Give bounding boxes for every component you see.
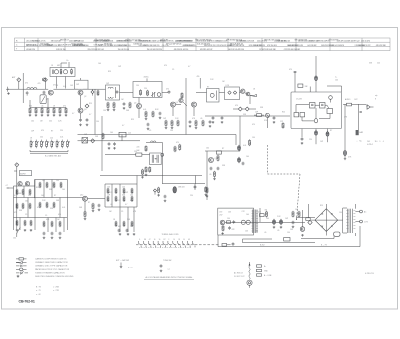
resistor R46 (29, 189, 31, 195)
svg-text:103: 103 (122, 187, 125, 189)
svg-text:10P C22 10P 1M .05: 10P C22 10P 1M .05 (166, 43, 181, 45)
top mid labels (98, 63, 122, 73)
ladder labels (29, 106, 66, 108)
decoupling cap C24 (315, 75, 318, 82)
inner resistor (221, 225, 224, 235)
svg-text:100 2.2K .05 47K 150: 100 2.2K .05 47K 150 (228, 49, 244, 51)
svg-text:100: 100 (130, 195, 133, 197)
IC U1 inner block C (327, 109, 333, 114)
wires power left (296, 204, 315, 227)
resistor R68 (123, 188, 125, 194)
svg-text:103: 103 (70, 85, 73, 87)
audio out wire (343, 104, 366, 150)
svg-text:DENOTES CHASSIS COMMON GROUND: DENOTES CHASSIS COMMON GROUND (35, 275, 74, 278)
svg-text:455: 455 (197, 76, 200, 78)
resistor R83 (217, 155, 219, 162)
mini table right of plug (257, 265, 273, 277)
resistor R71 (115, 196, 117, 202)
resistor R16 (107, 102, 110, 111)
transistor Q13 (209, 158, 218, 163)
svg-text:AUDIO: AUDIO (345, 98, 351, 101)
resistor R72 (123, 196, 125, 202)
rectifier circles D5 (241, 220, 250, 224)
svg-text:R7: R7 (164, 239, 166, 241)
wire if stage (139, 78, 194, 135)
cap at x295 (289, 69, 296, 73)
left margin stub (6, 185, 14, 188)
resistor R45 (22, 189, 24, 195)
svg-text:100: 100 (62, 189, 65, 191)
labels if stage (143, 109, 202, 132)
svg-text:470: 470 (289, 69, 292, 71)
svg-text:9: 9 (379, 141, 380, 143)
resistor on line (97, 90, 99, 96)
resistor R84 (213, 171, 216, 180)
trimmer VR5 (46, 140, 49, 149)
pot bank labels (30, 137, 63, 140)
svg-text:0.01 1K 682: 0.01 1K 682 (307, 45, 316, 47)
labels driver2 (206, 148, 226, 177)
svg-text:56K .05 R15 103: 56K .05 R15 103 (295, 39, 307, 41)
svg-text:1K 2.2K 47K 470: 1K 2.2K 47K 470 (58, 45, 71, 47)
resistor R66 (107, 188, 109, 194)
detector diode D3 (245, 107, 249, 111)
diode on line (91, 89, 94, 95)
transformer wires (343, 204, 356, 236)
svg-text:C22 R15 100 103 682: C22 R15 100 103 682 (284, 49, 300, 51)
capacitor C12 (159, 112, 162, 119)
tone cap symbol (160, 264, 170, 272)
coupling box (134, 151, 142, 156)
zener D6 (308, 220, 312, 224)
svg-text:104: 104 (335, 80, 338, 82)
svg-text:8.2K 103 2.2K 4.7 224: 8.2K 103 2.2K 4.7 224 (110, 45, 126, 47)
svg-text:103 682 1K: 103 682 1K (133, 43, 142, 45)
svg-text:56K 100 R7 C22: 56K 100 R7 C22 (347, 41, 359, 43)
svg-text:150: 150 (339, 212, 342, 214)
resistor R61 (43, 221, 45, 227)
svg-text:220: 220 (40, 137, 43, 139)
power transistor Q12 (173, 187, 185, 194)
svg-text:682: 682 (57, 65, 60, 67)
switch S1-1 (138, 241, 141, 247)
svg-text:4.7: 4.7 (72, 113, 74, 115)
svg-text:4.7: 4.7 (188, 66, 190, 68)
svg-text:TONE SW: TONE SW (163, 260, 172, 262)
svg-text:470: 470 (176, 142, 179, 144)
capacitor C1 (26, 91, 29, 96)
resistor R80 (145, 166, 148, 176)
resistor R92 (292, 211, 294, 218)
input diamond J3 (15, 163, 19, 167)
resistor R75 (123, 221, 125, 227)
svg-text:150: 150 (252, 137, 255, 139)
labels t2 (103, 99, 130, 112)
svg-text:682 56K 100 220: 682 56K 100 220 (183, 45, 196, 47)
resistor R85 (206, 187, 209, 198)
svg-text:x : 4V: x : 4V (36, 294, 41, 296)
svg-text:L : 2SB: L : 2SB (53, 287, 60, 289)
label near q3 (72, 113, 91, 116)
svg-text:1M 1K 100: 1M 1K 100 (104, 43, 112, 45)
svg-text:10: 10 (183, 239, 185, 241)
capacitor C35 (98, 204, 101, 211)
svg-text:R15: R15 (89, 103, 92, 105)
resistor R60 (53, 202, 55, 208)
svg-text:x-x: x-x (168, 269, 170, 271)
svg-text:8: 8 (375, 99, 376, 101)
resistor R20 (145, 111, 148, 120)
switch tick labels (139, 239, 190, 241)
svg-text:150: 150 (136, 85, 139, 87)
svg-text:470 R15 .05 10P: 470 R15 .05 10P (200, 49, 213, 51)
svg-text:103 470 R15 100: 103 470 R15 100 (321, 45, 334, 47)
plug labels (234, 272, 244, 278)
svg-text:CX-093: CX-093 (296, 99, 302, 101)
svg-text:103: 103 (295, 209, 298, 211)
inner comps (227, 218, 236, 224)
parts table data (26, 39, 386, 51)
svg-text:C9: C9 (149, 130, 151, 132)
svg-text:R7 1K 0.01 4.7 1K: R7 1K 0.01 4.7 1K (32, 41, 46, 43)
svg-text:100: 100 (31, 121, 34, 123)
svg-text:103: 103 (130, 226, 133, 228)
trimmer VR6 (51, 140, 54, 149)
wire main bus left (9, 88, 106, 90)
svg-text:150: 150 (170, 130, 173, 132)
box component small (119, 132, 126, 137)
switch S1-5 (158, 241, 161, 247)
svg-text:220 224 56K: 220 224 56K (74, 45, 84, 47)
IC U1 outline (291, 92, 342, 129)
wire j3 down (14, 167, 17, 230)
svg-text:C9: C9 (178, 239, 180, 241)
resistor R82 (176, 142, 181, 151)
t3 top pin (144, 77, 150, 82)
jack caps (360, 112, 362, 113)
plug arrow (249, 264, 251, 266)
svg-text:47K 47K 33K: 47K 47K 33K (376, 45, 387, 47)
transistor Q9 (25, 182, 29, 186)
resistor R57 (60, 182, 62, 188)
svg-text:220: 220 (49, 121, 52, 123)
wire q2 collector (81, 89, 96, 134)
switch S1-12 (192, 241, 195, 247)
wire t2 out (120, 92, 134, 94)
power return wires (218, 226, 360, 247)
resistor R50 (16, 220, 18, 226)
electrolytic C51 (280, 219, 283, 229)
audio line wire (162, 184, 205, 190)
small comp between boxes (166, 89, 170, 95)
antenna terminal J1b (43, 78, 47, 89)
resistor R48 (22, 203, 24, 209)
svg-text:100: 100 (98, 63, 101, 65)
svg-text:100: 100 (266, 218, 269, 220)
label feedback (190, 185, 196, 197)
audio out labels (345, 98, 358, 101)
power transformer T7 (346, 209, 355, 233)
right labels row (357, 141, 384, 147)
svg-text:4.7: 4.7 (122, 125, 124, 127)
svg-text:100: 100 (25, 201, 28, 203)
svg-text:o : 7V: o : 7V (36, 290, 41, 292)
left block labels (14, 195, 28, 216)
svg-text:10: 10 (159, 239, 161, 241)
volume bus wire (205, 115, 290, 117)
legend row 1 (16, 258, 67, 261)
IC U1 inner block E (300, 113, 305, 117)
svg-text:x — x: x — x (128, 267, 132, 269)
trimmer VR3 (35, 140, 38, 149)
speaker jack arrow (367, 104, 374, 109)
resistor R8 (65, 107, 68, 116)
left block wires (14, 180, 68, 231)
svg-text:4-785-213: 4-785-213 (365, 273, 374, 275)
wire ladder top row1 (30, 98, 66, 107)
power left comps (300, 218, 310, 237)
IF can above Q2 (75, 78, 89, 89)
cap below ic pin3 (301, 137, 304, 144)
switch S1-4 (153, 241, 156, 247)
resistor R93 (298, 211, 300, 218)
top right faint labels (369, 63, 380, 65)
svg-text:470: 470 (41, 130, 44, 132)
trimmer VR8 (61, 140, 64, 149)
svg-text:.05: .05 (209, 174, 211, 176)
svg-text:56K R15 8.2K: 56K R15 8.2K (26, 45, 37, 47)
driver2 wires (205, 145, 240, 200)
svg-text:100: 100 (246, 214, 249, 216)
svg-text:220 56K C9 C22: 220 56K C9 C22 (358, 45, 370, 47)
resistor R67 (115, 188, 117, 194)
svg-text:2.2K 100 1M R15: 2.2K 100 1M R15 (117, 40, 130, 42)
resistor R6 (53, 107, 56, 116)
resistor R44 (16, 189, 18, 195)
mixer cluster (43, 91, 46, 95)
svg-text:+: + (357, 141, 358, 143)
transistor Q8 (18, 182, 22, 186)
svg-text:Q5: Q5 (176, 102, 178, 104)
svg-text:.05: .05 (200, 118, 202, 120)
block3 caps top (118, 229, 129, 233)
capacitor C8 (86, 118, 89, 126)
box component B3 (284, 238, 290, 242)
switch S1-11 (187, 241, 190, 247)
capacitor C30 (108, 142, 111, 149)
capacitor C40 (164, 195, 167, 202)
transistor Q8a (241, 89, 245, 93)
svg-text:TUNING TRIMMER CAPACITOR: TUNING TRIMMER CAPACITOR (35, 272, 65, 275)
svg-text:150: 150 (13, 238, 16, 240)
transistor Q10 (80, 195, 88, 202)
svg-text:150 .05 103 224 220: 150 .05 103 224 220 (147, 49, 162, 51)
svg-text:ALL VOLTAGES MEASURED WITH VTV: ALL VOLTAGES MEASURED WITH VTVM NO SIGNA… (146, 276, 193, 279)
IC U1 inner wires (296, 99, 331, 121)
band switch lever (13, 228, 20, 240)
svg-text:0.01: 0.01 (243, 145, 246, 147)
capacitor C14 (189, 120, 192, 127)
bridge rectifier BR1 (315, 205, 342, 232)
resistor R81 (149, 166, 151, 172)
svg-text:AC INTLCK: AC INTLCK (234, 272, 244, 275)
svg-text:150: 150 (287, 232, 290, 234)
resistor R52 (30, 220, 32, 226)
svg-text:R7: R7 (207, 87, 209, 89)
detector diode D2 (238, 107, 242, 111)
svg-text:682: 682 (118, 226, 121, 228)
diode D4 (91, 139, 95, 143)
resistor R40 (102, 133, 104, 140)
svg-text:10: 10 (173, 239, 175, 241)
svg-text:220: 220 (309, 139, 312, 141)
labels q10 (79, 202, 90, 209)
resistor R7 (59, 107, 62, 116)
labels near q1 (56, 85, 73, 88)
wire ant feed (22, 73, 24, 103)
svg-text:TUNING DIAL CORD: TUNING DIAL CORD (161, 233, 179, 236)
resistor R49 (29, 203, 31, 209)
resistor R21 (152, 111, 154, 118)
svg-text:10: 10 (154, 239, 156, 241)
svg-text:103: 103 (290, 229, 293, 231)
electrolytic C45 (238, 157, 241, 163)
svg-text:56K C22 56K 1M 470: 56K C22 56K 1M 470 (195, 39, 211, 41)
capacitor C10 (123, 102, 126, 109)
block2 labels (41, 180, 61, 221)
main bus 2 (78, 135, 237, 146)
af arrow (250, 89, 257, 97)
AC terminals (355, 210, 368, 223)
svg-text:CERAMIC FEEDTHRU CAPACITOR: CERAMIC FEEDTHRU CAPACITOR (35, 261, 68, 264)
small jack symbol (120, 263, 133, 270)
svg-text:Q4: Q4 (134, 103, 136, 105)
wire vcc rail (295, 56, 342, 92)
pilot lamp PL1 (343, 150, 352, 159)
svg-text:470 224 1K .05 150: 470 224 1K .05 150 (174, 49, 188, 51)
svg-text:Q3: Q3 (84, 109, 86, 111)
diode small (153, 189, 156, 195)
svg-text:150: 150 (96, 121, 99, 123)
comps near 283 (282, 122, 284, 128)
svg-text:B-962: B-962 (260, 244, 265, 246)
svg-text:C9: C9 (121, 211, 123, 213)
output block outline (218, 208, 254, 235)
output transformer T6 (252, 210, 259, 234)
parts table row labels (16, 40, 18, 50)
svg-text:0.01 220 470 470: 0.01 220 470 470 (197, 43, 210, 45)
label c plus (335, 77, 338, 82)
resistor R70 (107, 196, 109, 202)
electrolytic C26 below IC (315, 130, 318, 136)
svg-text:100: 100 (206, 148, 209, 150)
resistor R56 (53, 182, 55, 188)
svg-text:224: 224 (137, 147, 140, 149)
antenna terminal J1 (12, 76, 21, 89)
svg-text:220 C22 8.2K R7 0.01: 220 C22 8.2K R7 0.01 (88, 49, 104, 51)
power bus wires (218, 208, 305, 247)
capacitor C31 (113, 142, 116, 149)
resistor R55 (46, 182, 48, 188)
capacitor C46 (242, 162, 245, 166)
svg-text:.05: .05 (264, 232, 266, 234)
labels below ic (309, 130, 332, 143)
switch S1-8 (172, 241, 175, 247)
resistor R34 (347, 103, 352, 106)
resistor R19b (181, 92, 183, 98)
osc coil box T3 (133, 82, 162, 98)
svg-text:R15: R15 (320, 205, 323, 207)
svg-text:470: 470 (25, 83, 28, 85)
svg-text:205: 205 (367, 141, 370, 143)
svg-text:= : 2TR: = : 2TR (53, 290, 60, 292)
svg-text:B+: B+ (67, 60, 69, 62)
driver labels (137, 147, 141, 152)
resistor R5 (47, 107, 50, 116)
svg-text:100: 100 (110, 132, 113, 134)
comp right (174, 146, 176, 152)
svg-text:470 .05 C9 R7 1K: 470 .05 C9 R7 1K (160, 40, 174, 42)
left block grounds (16, 229, 33, 231)
resistor R74 (115, 221, 117, 227)
terminal E1 (6, 87, 10, 95)
switch S1-3 (148, 241, 151, 247)
resistor R51 (24, 220, 26, 226)
svg-text:470 150 33K 56K 220: 470 150 33K 56K 220 (143, 45, 159, 47)
switch S1-7 (168, 241, 171, 247)
ladder label row 3 (31, 130, 63, 133)
svg-text:DO NOT CUT: DO NOT CUT (234, 276, 244, 278)
resistor R63 (59, 221, 61, 227)
svg-text:EXT — BAT SW: EXT — BAT SW (116, 259, 129, 262)
svg-text:470: 470 (166, 89, 169, 91)
svg-text:470: 470 (252, 124, 255, 126)
q10 wires (67, 198, 105, 213)
svg-text:0.01: 0.01 (63, 86, 66, 88)
svg-text:C22: C22 (128, 133, 131, 135)
labels agc (84, 132, 131, 138)
svg-text:C+: C+ (335, 77, 337, 79)
left comp (141, 169, 144, 179)
svg-text:.05: .05 (41, 106, 43, 108)
svg-text:103: 103 (107, 187, 110, 189)
svg-text:R7 10P 8.2K 0.01 33K: R7 10P 8.2K 0.01 33K (259, 49, 276, 51)
svg-text:47K 150 103: 47K 150 103 (267, 45, 276, 47)
transistor Q1 (46, 90, 53, 100)
svg-text:4.7: 4.7 (125, 204, 127, 206)
transistor Q3 (78, 108, 86, 113)
driver transformer T5b (150, 153, 162, 165)
svg-text:VOL: VOL (264, 120, 267, 122)
transistor Q4 (134, 103, 142, 109)
transistor Q8b (246, 92, 250, 96)
svg-text:0.01: 0.01 (62, 207, 65, 209)
legend row 6 (17, 275, 74, 278)
resistor R73 (131, 196, 133, 202)
svg-text:8.2K 1K 150: 8.2K 1K 150 (56, 49, 65, 51)
q12 emitter resistor (157, 187, 160, 197)
center label (163, 260, 172, 262)
svg-text:470 R15 C9: 470 R15 C9 (44, 45, 53, 47)
svg-text:R7: R7 (222, 148, 224, 150)
svg-text:1M 4.7 33K 56K C9: 1M 4.7 33K 56K C9 (178, 40, 193, 42)
resistor R30 (254, 112, 264, 117)
block2 grounds (43, 237, 62, 239)
resistor R79 (145, 145, 147, 151)
switch bank bus (136, 244, 220, 246)
trimmer VR4 (41, 140, 44, 149)
jack J2 (356, 130, 364, 135)
